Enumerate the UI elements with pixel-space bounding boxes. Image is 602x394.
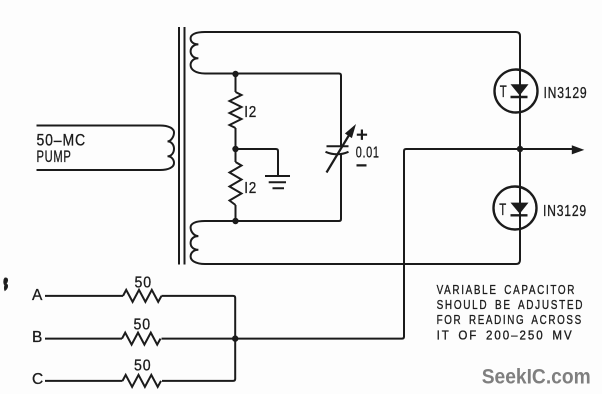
svg-text:IT OF 200–250 MV: IT OF 200–250 MV [437, 327, 574, 342]
svg-text:50: 50 [135, 274, 153, 291]
svg-text:0.01: 0.01 [356, 145, 380, 162]
svg-text:C: C [32, 371, 43, 388]
svg-text:T: T [500, 83, 507, 101]
svg-text:IN3129: IN3129 [544, 85, 588, 102]
svg-text:SeekIC.com: SeekIC.com [482, 365, 591, 388]
svg-text:50: 50 [134, 317, 152, 334]
svg-text:50: 50 [134, 358, 152, 375]
svg-text:FOR READING ACROSS: FOR READING ACROSS [437, 312, 583, 327]
svg-text:IN3129: IN3129 [543, 203, 587, 220]
svg-text:T: T [499, 201, 506, 219]
svg-text:B: B [32, 329, 42, 346]
svg-text:I2: I2 [244, 104, 257, 121]
svg-text:VARIABLE CAPACITOR: VARIABLE CAPACITOR [437, 282, 576, 297]
svg-text:PUMP: PUMP [37, 148, 72, 166]
svg-text:I2: I2 [244, 180, 257, 197]
svg-text:A: A [32, 287, 43, 304]
svg-text:SHOULD BE ADJUSTED: SHOULD BE ADJUSTED [437, 297, 584, 312]
svg-text:50–MC: 50–MC [37, 132, 87, 150]
